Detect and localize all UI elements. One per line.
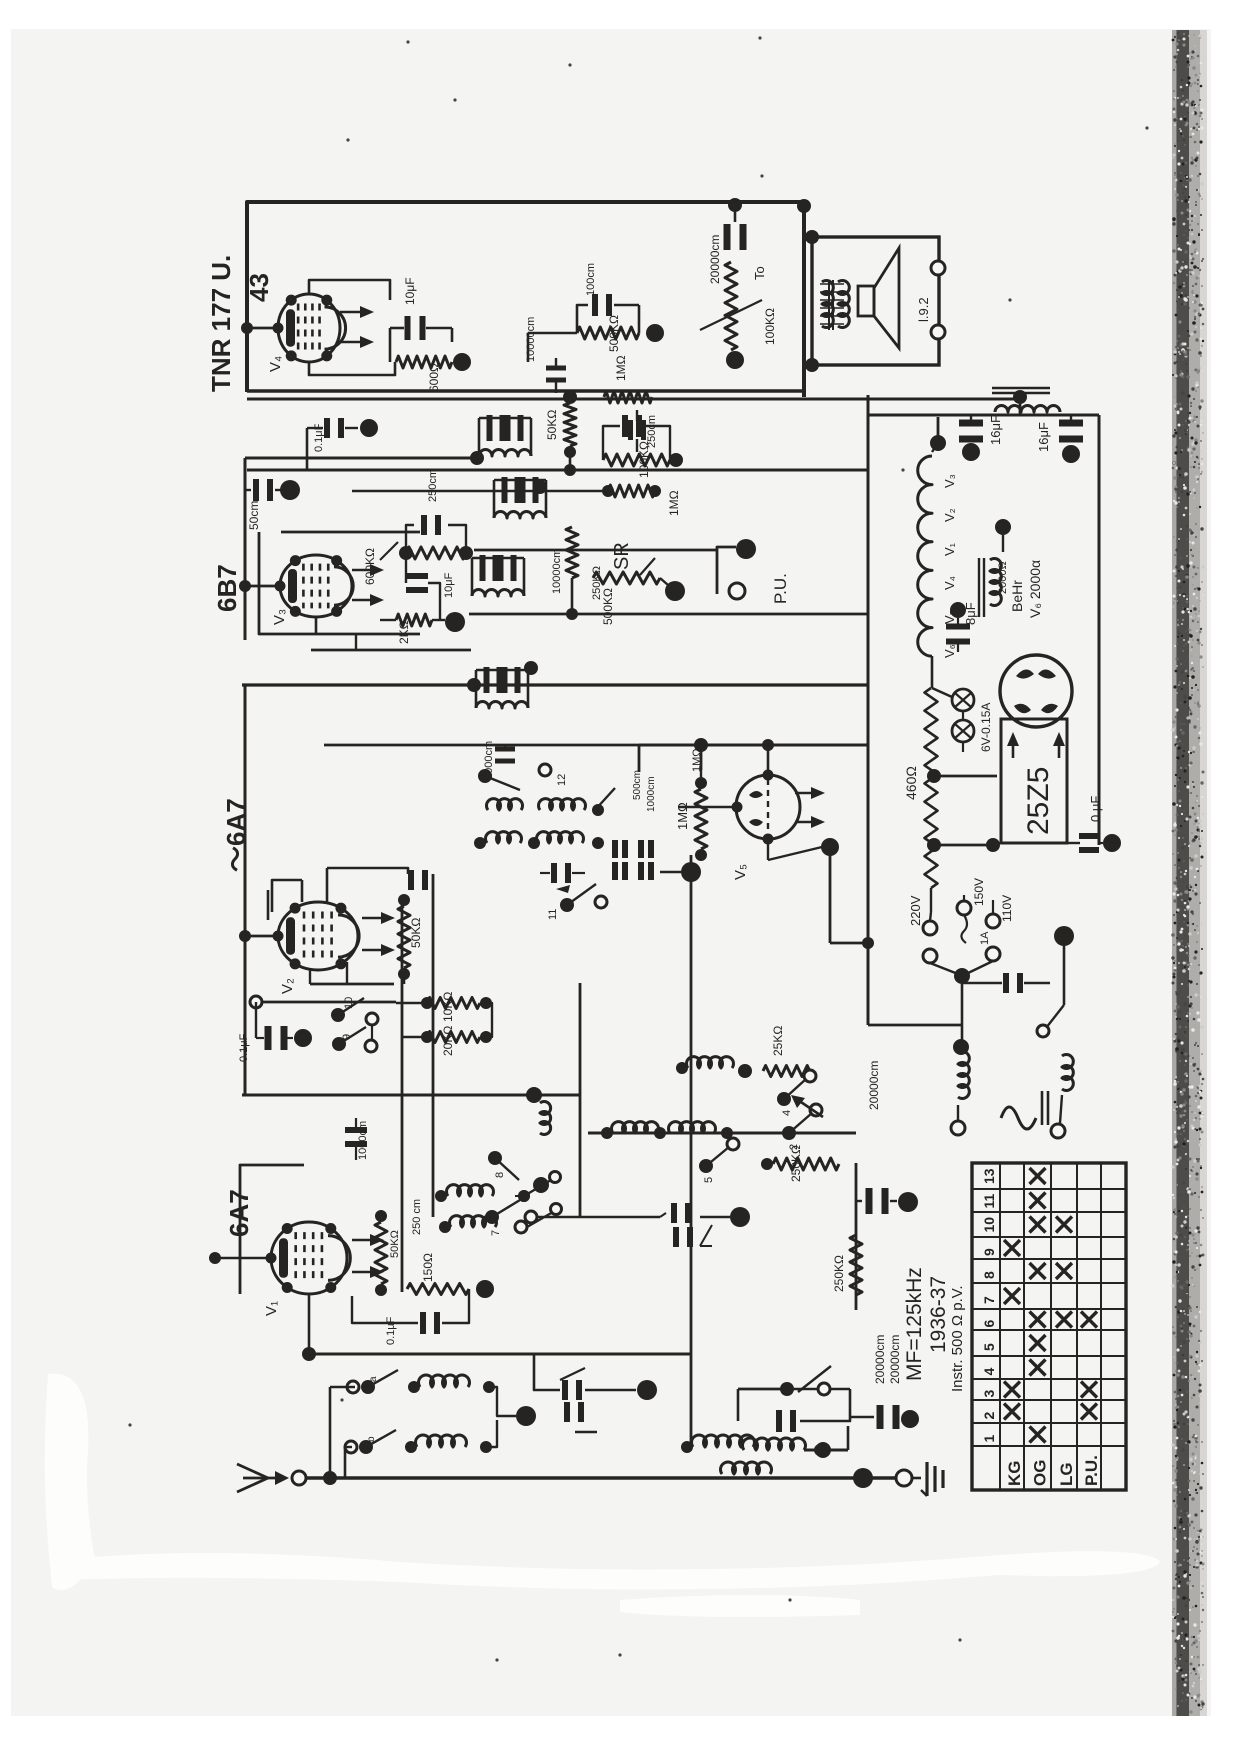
svg-text:10: 10: [343, 997, 355, 1009]
svg-text:100KΩ: 100KΩ: [637, 441, 651, 478]
svg-text:50KΩ: 50KΩ: [409, 918, 423, 948]
svg-text:V₁: V₁: [263, 1301, 280, 1316]
svg-text:0.μF: 0.μF: [1088, 796, 1103, 822]
svg-text:TNR 177 U.: TNR 177 U.: [206, 255, 236, 392]
svg-text:10μF: 10μF: [403, 277, 417, 305]
svg-text:8μF: 8μF: [963, 602, 978, 625]
svg-text:11: 11: [981, 1193, 997, 1208]
svg-text:12: 12: [556, 774, 568, 786]
svg-text:3: 3: [981, 1390, 997, 1398]
svg-text:110V: 110V: [1000, 895, 1014, 922]
svg-text:V₂: V₂: [942, 508, 957, 522]
svg-text:Instr. 500 Ω p.V.: Instr. 500 Ω p.V.: [949, 1285, 966, 1392]
svg-text:V₃: V₃: [271, 609, 288, 625]
svg-text:4: 4: [981, 1368, 997, 1376]
svg-text:2KΩ: 2KΩ: [397, 620, 411, 644]
svg-text:43: 43: [244, 273, 274, 302]
svg-text:250cm: 250cm: [427, 469, 439, 502]
svg-text:20000cm: 20000cm: [873, 1335, 887, 1384]
svg-text:1A: 1A: [979, 931, 991, 945]
svg-text:V₄: V₄: [267, 356, 284, 372]
svg-text:600KΩ: 600KΩ: [363, 548, 377, 585]
svg-text:2000Ω: 2000Ω: [997, 561, 1009, 594]
svg-text:OG: OG: [1031, 1460, 1050, 1486]
svg-text:To: To: [752, 266, 767, 280]
svg-text:20KΩ: 20KΩ: [441, 1026, 455, 1056]
svg-text:16μF: 16μF: [1036, 422, 1051, 452]
svg-text:25Z5: 25Z5: [1022, 767, 1055, 835]
svg-text:150Ω: 150Ω: [421, 1253, 435, 1282]
svg-text:1MΩ: 1MΩ: [614, 355, 628, 381]
svg-text:1000cm: 1000cm: [357, 1121, 369, 1160]
svg-text:2: 2: [981, 1412, 997, 1420]
svg-text:20000cm: 20000cm: [867, 1061, 881, 1110]
svg-text:10000cm: 10000cm: [525, 317, 537, 362]
svg-text:0.1μF: 0.1μF: [313, 423, 325, 452]
svg-text:7: 7: [981, 1296, 997, 1304]
svg-text:MF=125kHz: MF=125kHz: [903, 1267, 926, 1381]
svg-text:50KΩ: 50KΩ: [545, 410, 559, 440]
svg-text:16μF: 16μF: [988, 415, 1003, 445]
svg-text:500cm: 500cm: [632, 770, 643, 800]
svg-text:BeHr: BeHr: [1009, 580, 1025, 612]
svg-text:V₂: V₂: [279, 978, 296, 994]
svg-text:1000cm: 1000cm: [646, 776, 657, 812]
svg-text:9: 9: [341, 1034, 353, 1040]
svg-text:〜6A7: 〜6A7: [221, 798, 251, 872]
svg-text:460Ω: 460Ω: [903, 766, 919, 800]
svg-text:V₄: V₄: [942, 576, 957, 590]
svg-text:100KΩ: 100KΩ: [763, 308, 777, 345]
svg-text:600Ω: 600Ω: [427, 363, 441, 392]
svg-text:500KΩ: 500KΩ: [601, 588, 615, 625]
svg-text:5: 5: [703, 1177, 715, 1183]
svg-text:20000cm: 20000cm: [708, 235, 722, 284]
svg-text:1: 1: [981, 1435, 997, 1443]
svg-text:13: 13: [981, 1168, 997, 1184]
svg-text:8: 8: [981, 1271, 997, 1279]
svg-text:V₆ 2000α: V₆ 2000α: [1027, 560, 1043, 618]
svg-text:10: 10: [981, 1217, 997, 1233]
svg-text:150V: 150V: [972, 878, 986, 906]
svg-text:V₃: V₃: [942, 474, 957, 488]
svg-text:10000cm: 10000cm: [551, 549, 563, 594]
svg-text:10μF: 10μF: [443, 572, 455, 598]
svg-text:250 cm: 250 cm: [411, 1199, 423, 1235]
svg-text:50KΩ: 50KΩ: [389, 1230, 401, 1258]
svg-text:100cm: 100cm: [585, 263, 597, 296]
svg-text:25KΩ: 25KΩ: [771, 1026, 785, 1056]
svg-text:V₆: V₆: [942, 644, 957, 658]
svg-text:10KΩ: 10KΩ: [441, 992, 455, 1022]
svg-text:KG: KG: [1005, 1461, 1024, 1487]
svg-text:7: 7: [490, 1230, 502, 1236]
svg-text:250KΩ: 250KΩ: [832, 1255, 846, 1292]
svg-text:220V: 220V: [908, 895, 923, 926]
svg-text:SR: SR: [611, 542, 633, 570]
svg-text:b: b: [366, 1436, 377, 1442]
svg-text:0.1μF: 0.1μF: [385, 1316, 397, 1345]
svg-text:50cm: 50cm: [247, 501, 261, 530]
svg-text:0.1μF: 0.1μF: [238, 1033, 250, 1062]
svg-text:V₅: V₅: [732, 864, 749, 880]
svg-text:6: 6: [981, 1320, 997, 1328]
svg-text:500KΩ: 500KΩ: [607, 315, 621, 352]
svg-text:4: 4: [781, 1110, 793, 1116]
svg-text:1936-37: 1936-37: [927, 1276, 950, 1353]
svg-text:P.U.: P.U.: [771, 573, 790, 604]
svg-text:6B7: 6B7: [212, 564, 242, 612]
svg-text:LG: LG: [1057, 1462, 1076, 1486]
svg-text:P.U.: P.U.: [1082, 1455, 1101, 1486]
svg-text:8: 8: [494, 1172, 506, 1178]
svg-text:11: 11: [547, 909, 559, 920]
svg-text:a: a: [368, 1376, 379, 1382]
svg-text:9: 9: [981, 1248, 997, 1256]
svg-text:6V-0.15A: 6V-0.15A: [979, 703, 993, 752]
svg-text:5: 5: [981, 1343, 997, 1351]
svg-text:l.9.2: l.9.2: [916, 297, 931, 322]
svg-text:20000cm: 20000cm: [888, 1335, 902, 1384]
svg-text:V₁: V₁: [942, 542, 957, 556]
svg-text:1MΩ: 1MΩ: [667, 490, 681, 516]
svg-text:250KΩ: 250KΩ: [789, 1145, 803, 1182]
